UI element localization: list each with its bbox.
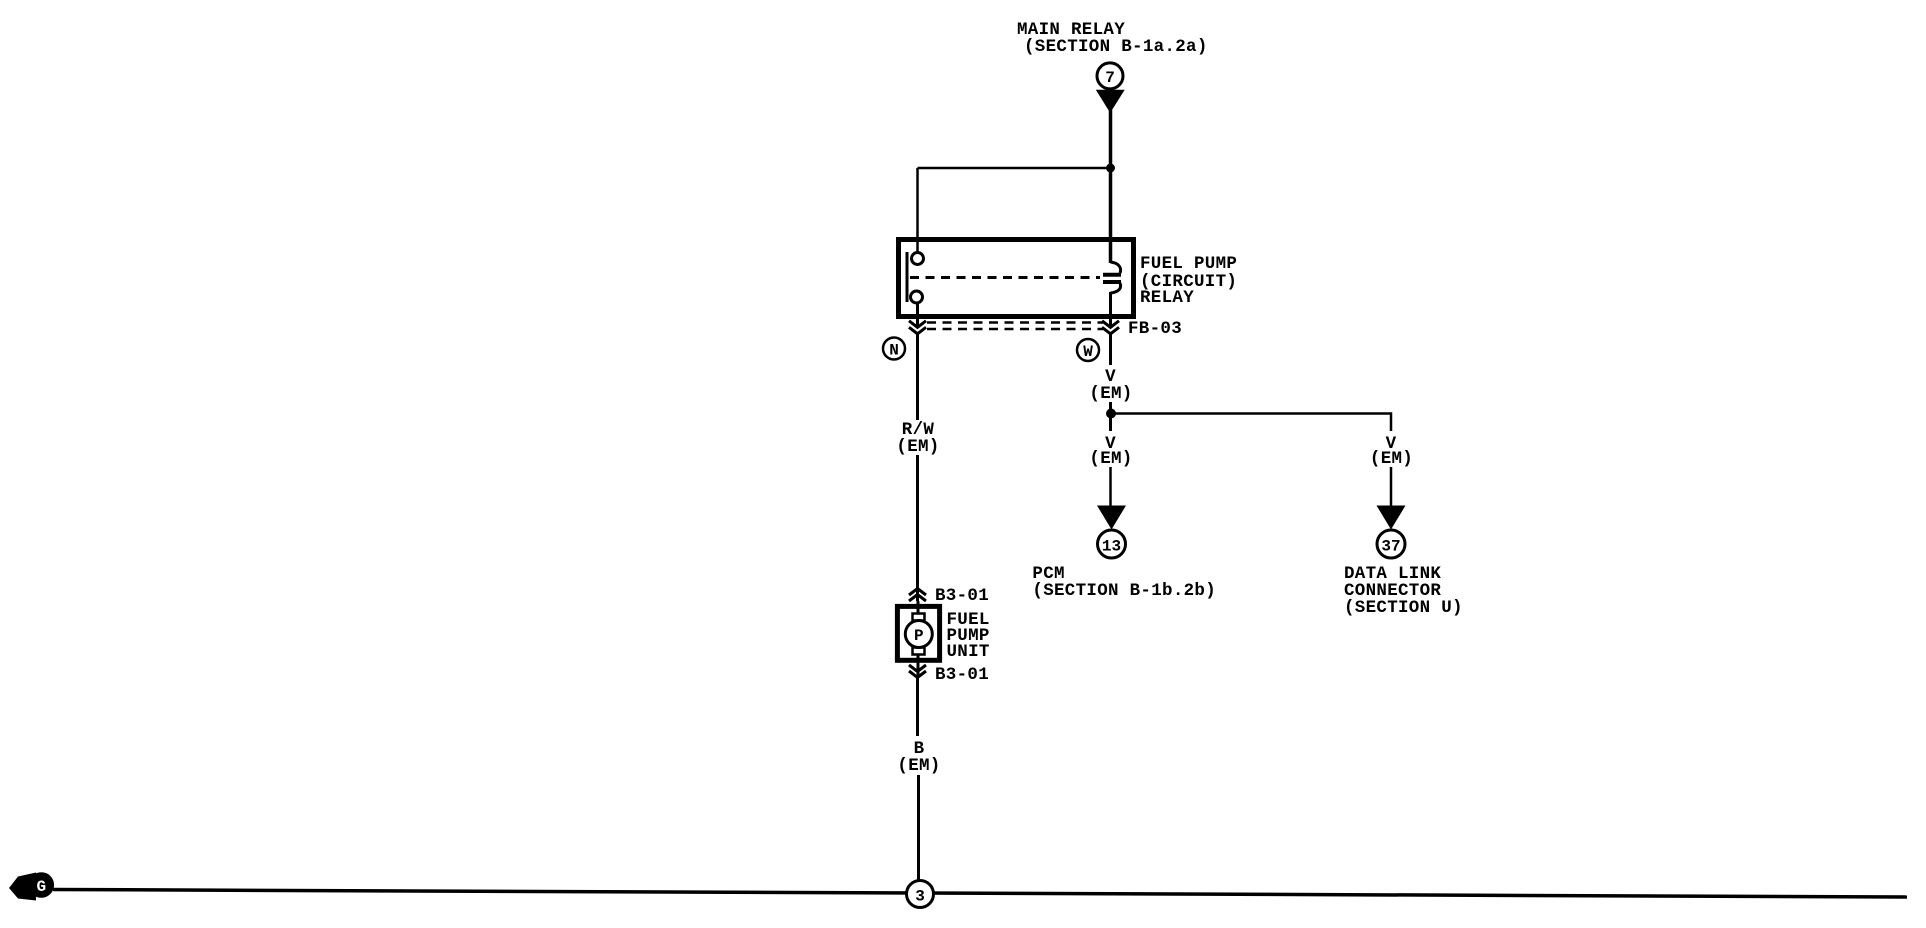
ground joint circle 3 <box>907 881 934 908</box>
svg-text:FUEL PUMP: FUEL PUMP <box>1140 254 1237 274</box>
svg-text:FB-03: FB-03 <box>1128 319 1182 339</box>
svg-text:(EM): (EM) <box>1370 449 1413 469</box>
svg-text:P: P <box>914 627 924 645</box>
svg-text:3: 3 <box>915 888 925 906</box>
svg-text:G: G <box>36 878 46 896</box>
svg-text:37: 37 <box>1381 538 1400 556</box>
wire: horizontal branch to data link <box>1111 414 1391 432</box>
arrow to PCM (filled triangle) <box>1097 506 1126 530</box>
relay coil <box>1103 262 1121 293</box>
arrow to data link connector (filled triangle) <box>1377 506 1406 530</box>
relay actuator dashed link <box>910 276 1100 279</box>
pump motor terminal top <box>913 614 925 621</box>
connector chevrons left (down) <box>909 321 926 334</box>
svg-text:13: 13 <box>1102 538 1121 556</box>
connector FB-03 dashed band lower <box>927 328 1103 331</box>
ground symbol G <box>9 872 54 900</box>
wire: main feed down from arrow to relay coil <box>1109 110 1113 263</box>
svg-text:UNIT: UNIT <box>947 642 990 662</box>
connector B3-01 upper chevrons (up) <box>909 589 926 602</box>
junction dot <box>1106 164 1115 173</box>
wire through pump box top <box>917 601 920 616</box>
arrow from main relay (filled triangle) <box>1096 90 1125 113</box>
connector FB-03 dashed band upper <box>927 321 1103 324</box>
svg-text:(EM): (EM) <box>896 437 939 457</box>
relay contact upper <box>912 253 924 265</box>
pump motor terminal bottom <box>913 648 925 655</box>
connector circle 37 <box>1377 530 1405 558</box>
connector B3-01 lower chevrons (down) <box>909 665 926 678</box>
svg-text:7: 7 <box>1105 69 1115 87</box>
connector circle 7 <box>1097 63 1123 89</box>
wire: coil leg below FB-03 <box>1109 333 1112 365</box>
wire: data link leg <box>1390 467 1393 507</box>
pump motor circle P <box>905 621 932 648</box>
wire: N leg down <box>916 333 919 420</box>
svg-text:(SECTION U): (SECTION U) <box>1344 598 1463 618</box>
relay switch common bar <box>906 252 909 302</box>
svg-text:(EM): (EM) <box>1089 384 1132 404</box>
wire: V leg to junction <box>1109 402 1112 431</box>
fuel pump unit box <box>897 606 939 660</box>
wire: down to ground joint <box>917 775 920 882</box>
svg-text:RELAY: RELAY <box>1140 288 1194 308</box>
wire: branch horizontal at junction <box>918 167 1111 170</box>
svg-text:(EM): (EM) <box>897 756 940 776</box>
wire: pump to B label <box>916 678 919 737</box>
wire: PCM leg <box>1109 467 1112 507</box>
wire: R/W leg down to B3-01 <box>916 455 919 601</box>
svg-text:B3-01: B3-01 <box>935 665 989 685</box>
relay contact lower <box>911 291 923 303</box>
svg-text:(SECTION B-1b.2b): (SECTION B-1b.2b) <box>1032 581 1216 601</box>
wire through pump box bottom <box>917 652 920 677</box>
svg-text:N: N <box>889 342 899 360</box>
svg-text:(EM): (EM) <box>1089 449 1132 469</box>
junction dot mid <box>1106 409 1116 419</box>
ground line <box>53 890 1907 898</box>
connector chevrons right (down) <box>1102 321 1119 334</box>
wire: coil to FB-03 connector <box>1109 292 1112 327</box>
relay box FUEL PUMP (CIRCUIT) RELAY <box>899 240 1134 317</box>
terminal N circle <box>883 338 905 360</box>
svg-text:B3-01: B3-01 <box>935 586 989 606</box>
wire: lower contact to FB-03 connector <box>916 302 919 327</box>
connector circle 13 <box>1098 530 1126 558</box>
wire: left leg down into relay to upper contact <box>916 168 919 253</box>
terminal W circle <box>1077 339 1099 361</box>
svg-text:(SECTION B-1a.2a): (SECTION B-1a.2a) <box>1024 37 1208 57</box>
svg-text:W: W <box>1083 343 1093 361</box>
